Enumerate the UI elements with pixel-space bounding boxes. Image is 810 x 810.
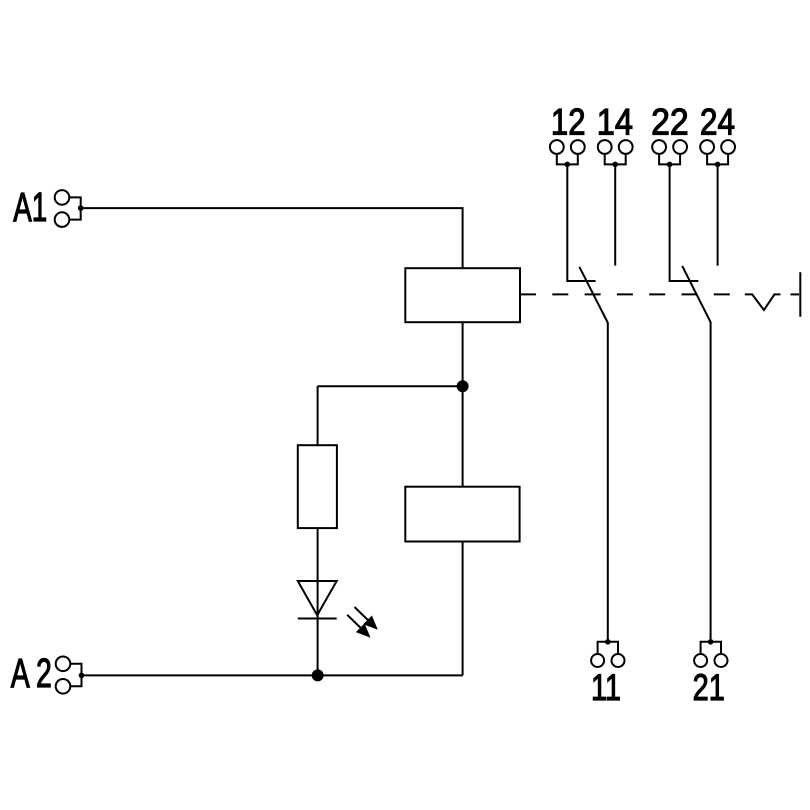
- svg-text:A 2: A 2: [11, 650, 52, 696]
- svg-text:24: 24: [700, 101, 735, 143]
- svg-text:14: 14: [597, 101, 633, 143]
- svg-text:12: 12: [551, 101, 586, 143]
- svg-text:A1: A1: [13, 184, 47, 230]
- svg-text:22: 22: [651, 101, 689, 143]
- svg-text:11: 11: [591, 666, 621, 708]
- svg-text:21: 21: [693, 666, 725, 708]
